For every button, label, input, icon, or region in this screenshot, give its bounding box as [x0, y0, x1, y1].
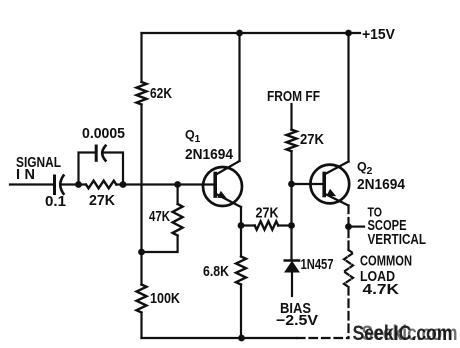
label Q1	[185, 128, 201, 145]
transistor Q2	[310, 162, 349, 206]
label Q2	[357, 160, 373, 177]
wire top +15V rail	[142, 32, 361, 34]
wire diode to BIAS	[291, 272, 293, 296]
svg-text:1N457: 1N457	[301, 257, 334, 273]
node K junction dot scope tap	[345, 223, 352, 230]
svg-text:Q: Q	[185, 128, 195, 142]
svg-text:Seekic.com: Seekic.com	[362, 322, 458, 345]
wire Q1 collector to +15V	[238, 33, 240, 161]
svg-text:6.8K: 6.8K	[203, 264, 229, 280]
wire Q1 emitter column	[240, 207, 242, 257]
svg-text:SIGNAL: SIGNAL	[16, 155, 61, 171]
wire node B to Q1 base	[116, 183, 215, 185]
wire FROM FF lead	[290, 104, 292, 130]
wire bottom rail dashed segment	[297, 337, 349, 339]
wire bottom rail solid	[142, 337, 298, 339]
wire Q2 emitter dashed to scope tap	[347, 206, 349, 224]
svg-text:47K: 47K	[149, 209, 170, 225]
svg-text:FROM FF: FROM FF	[267, 89, 320, 105]
wire signal input lead	[10, 183, 53, 185]
svg-text:0.0005: 0.0005	[82, 126, 125, 142]
wire left column middle	[140, 105, 142, 285]
svg-text:27K: 27K	[256, 206, 279, 222]
label SIGNAL IN	[16, 155, 61, 183]
wire FF column to diode	[290, 151, 292, 259]
wire left column lower	[140, 313, 142, 339]
svg-text:1: 1	[195, 133, 201, 145]
svg-text:0.1: 0.1	[45, 194, 66, 210]
node B junction dot	[120, 181, 127, 188]
wire emitter to 27K coupling	[241, 224, 255, 226]
watermark Seekic.com	[353, 322, 458, 345]
resistor R5 6.8K	[236, 257, 246, 285]
svg-text:VERTICAL: VERTICAL	[368, 232, 427, 248]
svg-text:Q: Q	[357, 160, 367, 174]
resistor R6 27K coupling	[255, 221, 279, 229]
node C junction dot 47K tap	[174, 181, 181, 188]
node D junction dot	[138, 249, 145, 256]
resistor R3 27K input	[86, 181, 116, 189]
svg-text:27K: 27K	[300, 132, 324, 148]
resistor R1 62K	[137, 82, 147, 105]
svg-text:27K: 27K	[89, 193, 116, 209]
svg-text:2: 2	[367, 165, 373, 177]
wire 27K to node H	[278, 224, 291, 226]
wire parallel cap branch	[79, 153, 124, 185]
wire cap to node A	[63, 183, 87, 185]
wire dashed below tap	[347, 230, 349, 250]
wire 47K top lead	[177, 185, 179, 205]
resistor R8 4.7K common load (dashed)	[344, 250, 353, 287]
label COMMON LOAD 4.7K	[360, 254, 412, 299]
resistor R7 27K FF	[287, 130, 297, 152]
node I junction dot Q2 base tap	[288, 181, 295, 188]
svg-text:62K: 62K	[150, 86, 172, 102]
label BIAS -2.5V	[276, 301, 318, 329]
svg-text:2N1694: 2N1694	[357, 177, 405, 193]
transistor Q1	[203, 161, 242, 207]
resistor R2 100K	[137, 285, 147, 313]
svg-text:−2.5V: −2.5V	[276, 313, 318, 329]
node G junction dot bottom rail	[238, 335, 245, 342]
wire 47K bottom link to left column	[142, 236, 178, 253]
svg-text:100K: 100K	[150, 291, 180, 307]
svg-text:IN: IN	[16, 167, 35, 183]
capacitor C2 0.0005	[96, 146, 105, 161]
wire node I to Q2 base	[292, 183, 325, 185]
wire left column upper (62K branch)	[140, 33, 142, 82]
wire Q2 collector to +15V	[347, 33, 349, 162]
node J junction dot collector rail	[345, 30, 352, 37]
node E junction dot collector rail	[236, 30, 243, 37]
node H junction dot	[288, 222, 295, 229]
svg-text:4.7K: 4.7K	[363, 282, 400, 298]
wire scope lead	[352, 226, 364, 228]
label TO SCOPE VERTICAL	[368, 205, 427, 249]
capacitor C1 0.1	[55, 176, 64, 194]
svg-text:2N1694: 2N1694	[185, 147, 233, 163]
diode D1 1N457	[285, 261, 299, 273]
node A junction dot	[75, 181, 82, 188]
wire 6.8K to bottom rail	[240, 285, 242, 339]
node F junction dot emitter	[238, 222, 245, 229]
svg-text:+15V: +15V	[362, 27, 395, 43]
wire dashed common load to bottom rail	[347, 287, 349, 338]
svg-text:COMMON: COMMON	[360, 254, 412, 270]
resistor R4 47K	[173, 204, 183, 236]
